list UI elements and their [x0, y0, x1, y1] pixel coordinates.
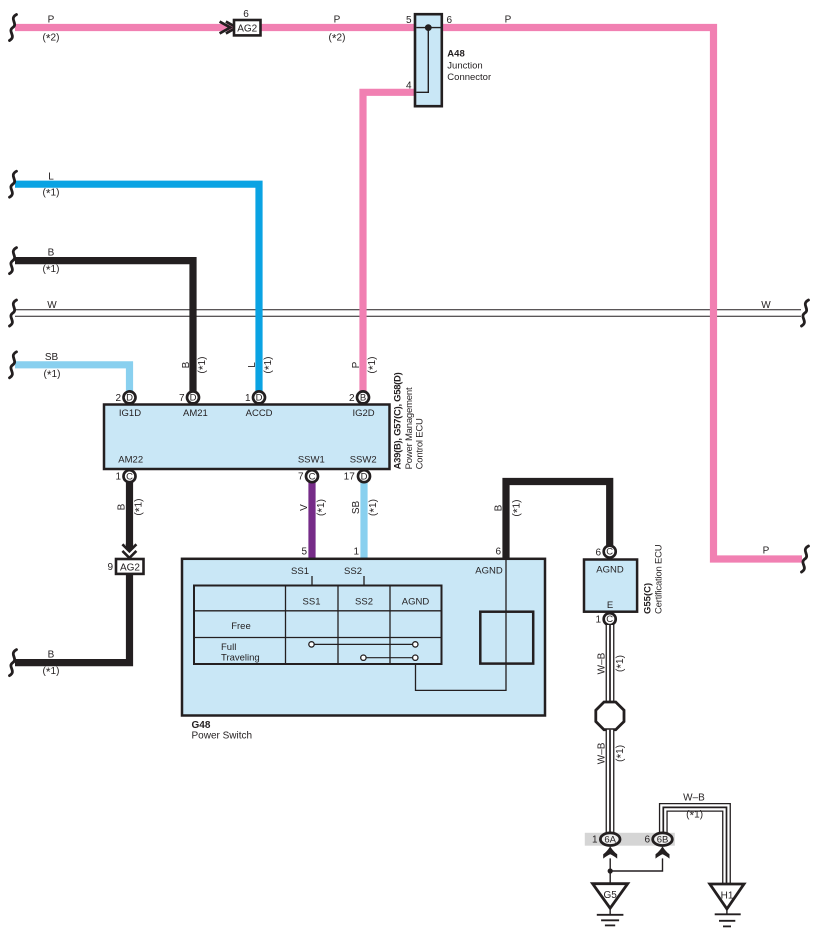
svg-text:C: C — [126, 471, 133, 482]
svg-text:(*2): (*2) — [43, 32, 60, 46]
svg-text:(*1): (*1) — [366, 357, 380, 374]
svg-text:(*2): (*2) — [329, 32, 346, 46]
svg-text:6A: 6A — [604, 834, 616, 845]
wire P top horizontal from left break to AG2 — [15, 24, 234, 31]
svg-text:SB: SB — [45, 352, 59, 363]
svg-text:1: 1 — [115, 472, 121, 483]
pin 7 C (SSW1) — [298, 470, 318, 482]
svg-text:G55(C): G55(C) — [643, 583, 654, 614]
svg-text:SS1: SS1 — [291, 566, 309, 577]
break symbol left of wire P top — [10, 15, 17, 41]
svg-text:1: 1 — [353, 547, 359, 558]
svg-text:D: D — [126, 393, 133, 404]
svg-text:SB: SB — [351, 501, 362, 515]
svg-text:Power Switch: Power Switch — [192, 731, 253, 742]
svg-text:W–B: W–B — [683, 792, 705, 803]
connector AG2 box (top), pin 6 — [234, 9, 261, 35]
wire P from A48 pin 4 down to ECU IG2D — [363, 92, 415, 391]
svg-text:D: D — [190, 393, 197, 404]
G48 internal link line SS1 — [311, 576, 313, 586]
svg-text:P: P — [763, 546, 770, 557]
svg-text:C: C — [309, 471, 316, 482]
svg-text:ACCD: ACCD — [246, 408, 273, 419]
svg-text:(*1): (*1) — [43, 263, 60, 277]
G48 internal link line SS2 — [363, 576, 365, 586]
svg-text:Junction: Junction — [447, 60, 482, 71]
connector AG2 chevrons (vertical) — [122, 544, 136, 551]
svg-text:(*1): (*1) — [614, 745, 628, 762]
svg-text:(*1): (*1) — [43, 187, 60, 201]
connector AG2 chevrons (top) — [220, 22, 237, 34]
svg-text:9: 9 — [107, 562, 113, 573]
svg-text:6: 6 — [595, 548, 601, 559]
svg-text:AGND: AGND — [475, 565, 503, 576]
svg-text:Certification ECU: Certification ECU — [654, 544, 665, 614]
junction dot — [608, 868, 613, 873]
svg-text:W: W — [761, 300, 771, 311]
G48 internal AGND line through switch block to table — [416, 560, 507, 690]
ground shield bar — [585, 833, 675, 846]
ECU box A39/G57/G58 — [104, 405, 390, 470]
svg-text:G5: G5 — [604, 890, 618, 901]
svg-text:C: C — [606, 614, 613, 625]
svg-text:L: L — [247, 362, 258, 368]
svg-text:H1: H1 — [721, 890, 734, 901]
svg-text:SS2: SS2 — [344, 566, 362, 577]
svg-text:B: B — [360, 393, 366, 404]
svg-text:2: 2 — [349, 393, 355, 404]
wire B from left break to ECU AM21 — [15, 261, 193, 391]
connector oval 6A, pin 1 — [592, 833, 620, 846]
svg-text:W–B: W–B — [596, 652, 607, 674]
break symbol left of wire B bottom — [10, 650, 17, 676]
svg-text:E: E — [607, 600, 613, 611]
svg-text:P: P — [505, 15, 512, 26]
svg-text:B: B — [181, 361, 192, 368]
ground point H1 — [710, 884, 744, 926]
svg-text:B: B — [48, 650, 55, 661]
noise filter octagon — [596, 702, 624, 730]
svg-text:W: W — [47, 300, 57, 311]
svg-text:5: 5 — [406, 15, 412, 26]
pin 2 D (IG1D) — [115, 391, 135, 403]
svg-text:IG2D: IG2D — [353, 408, 375, 419]
svg-text:AM22: AM22 — [118, 454, 143, 465]
svg-text:6: 6 — [447, 15, 453, 26]
wire B from AG2 down and left to bottom-left break — [15, 574, 130, 663]
certification ECU G55 box — [584, 560, 637, 612]
svg-text:(*1): (*1) — [511, 500, 525, 517]
svg-text:Free: Free — [231, 621, 251, 632]
svg-text:G48: G48 — [192, 720, 211, 731]
G48 contact table — [194, 586, 442, 665]
svg-text:AG2: AG2 — [237, 24, 257, 35]
svg-text:C: C — [606, 547, 613, 558]
svg-text:IG1D: IG1D — [119, 408, 141, 419]
break symbol left of wire W — [10, 300, 17, 326]
pin 1 C (AM22) — [115, 470, 135, 482]
svg-text:4: 4 — [406, 81, 412, 92]
svg-text:1: 1 — [245, 393, 251, 404]
svg-text:6: 6 — [243, 9, 249, 20]
svg-text:V: V — [299, 504, 310, 511]
wire SB from ECU SSW2 down to G48 SS2 — [360, 482, 367, 560]
pin 1 C (G55 E) — [595, 613, 615, 626]
wire W-B from G55 pin 1 to noise filter — [606, 625, 615, 703]
svg-text:6: 6 — [495, 547, 501, 558]
ground link lines with junction — [610, 858, 662, 883]
svg-text:(*1): (*1) — [43, 665, 60, 679]
svg-text:SSW2: SSW2 — [350, 454, 377, 465]
break symbol right of wire W — [802, 300, 809, 326]
svg-text:SSW1: SSW1 — [298, 454, 325, 465]
break symbol right of wire P bottom — [802, 546, 809, 572]
svg-text:Traveling: Traveling — [221, 652, 260, 663]
svg-text:B: B — [117, 503, 128, 510]
pin 6 C (G55 AGND) — [604, 546, 616, 558]
svg-text:AG2: AG2 — [120, 563, 140, 574]
wire B from G48 AGND up and right to G55 pin 6 — [506, 482, 610, 561]
svg-text:1: 1 — [595, 615, 601, 626]
ground point G5 — [593, 884, 628, 926]
svg-text:D: D — [361, 471, 368, 482]
wire W horizontal (white wire, outline style) — [15, 309, 802, 317]
svg-text:(*1): (*1) — [686, 809, 703, 823]
connector AG2 box (vertical), pin 9 — [107, 559, 143, 574]
svg-text:5: 5 — [301, 547, 307, 558]
svg-text:(*1): (*1) — [315, 499, 329, 516]
svg-text:(*1): (*1) — [614, 655, 628, 672]
svg-text:2: 2 — [115, 393, 121, 404]
break symbol left of wire L — [10, 171, 17, 197]
svg-text:SS1: SS1 — [303, 597, 321, 608]
svg-text:(*1): (*1) — [367, 499, 381, 516]
svg-text:(*1): (*1) — [133, 499, 147, 516]
svg-text:(*1): (*1) — [262, 357, 276, 374]
pin 7 D (AM21) — [179, 391, 199, 403]
contact SS1-AGND — [309, 642, 418, 647]
svg-text:A48: A48 — [447, 48, 464, 59]
power switch G48 box — [182, 559, 545, 716]
svg-text:A39(B), G57(C), G58(D): A39(B), G57(C), G58(D) — [393, 372, 404, 469]
wire P from A48 pin 6 right and down to bottom-right break — [442, 28, 802, 560]
svg-text:L: L — [48, 171, 54, 182]
connector oval 6B, pin 6 — [644, 833, 672, 846]
svg-text:D: D — [256, 393, 263, 404]
ground arrow below 6A — [603, 846, 617, 858]
svg-text:AM21: AM21 — [183, 408, 208, 419]
wire W-B loop from connector 6B up and over to ground H1 — [663, 807, 726, 884]
svg-text:7: 7 — [179, 393, 185, 404]
wire L from left break to ECU ACCD — [15, 184, 259, 391]
svg-text:AGND: AGND — [402, 597, 430, 608]
svg-text:1: 1 — [592, 835, 598, 846]
svg-text:P: P — [48, 15, 55, 26]
svg-text:P: P — [334, 15, 341, 26]
svg-text:(*1): (*1) — [44, 368, 61, 382]
svg-text:B: B — [493, 504, 504, 511]
wire V from ECU SSW1 down to G48 SS1 — [308, 482, 315, 560]
svg-text:6: 6 — [644, 835, 650, 846]
break symbol left of wire SB — [10, 352, 17, 378]
svg-text:B: B — [48, 248, 55, 259]
contact SS2-AGND — [361, 655, 418, 660]
svg-text:W–B: W–B — [596, 742, 607, 764]
wire P from AG2 to A48 pin 5 — [260, 24, 415, 31]
svg-text:6B: 6B — [657, 834, 669, 845]
pin 2 B (IG2D) — [349, 391, 369, 403]
svg-text:P: P — [351, 361, 362, 368]
svg-text:Control ECU: Control ECU — [414, 418, 425, 469]
svg-text:(*1): (*1) — [196, 357, 210, 374]
svg-text:SS2: SS2 — [355, 597, 373, 608]
svg-text:7: 7 — [298, 472, 304, 483]
svg-text:17: 17 — [344, 472, 356, 483]
wire W-B from noise filter to connector 6A — [606, 730, 615, 833]
pin 1 D (ACCD) — [245, 391, 265, 403]
svg-text:AGND: AGND — [596, 564, 624, 575]
wire SB from left break to ECU IG1D — [15, 365, 130, 391]
wire B from ECU AM22 down to AG2 chevron — [126, 482, 133, 548]
ground arrow below 6B — [656, 846, 670, 858]
svg-text:Connector: Connector — [447, 72, 491, 83]
break symbol left of wire B — [10, 248, 17, 274]
G48 switch block rectangle — [480, 612, 533, 664]
junction connector A48 — [415, 14, 442, 106]
pin 17 D (SSW2) — [344, 470, 370, 482]
